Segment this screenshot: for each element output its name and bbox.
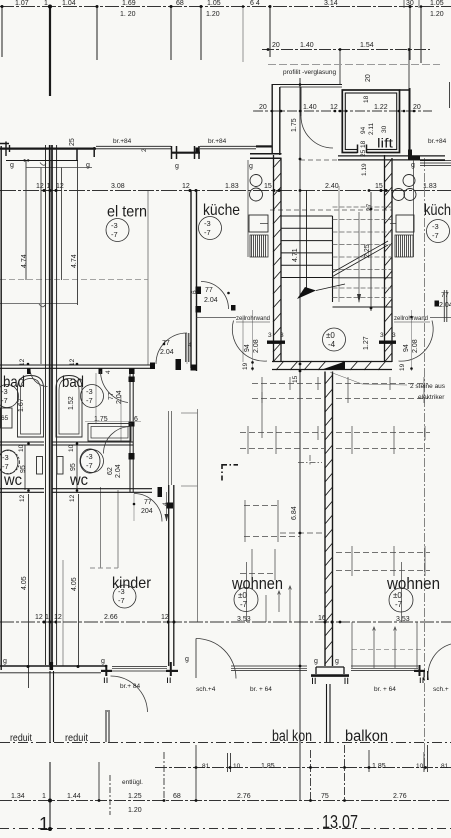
svg-text:balkon: balkon: [345, 728, 388, 745]
svg-text:1.85: 1.85: [261, 763, 275, 770]
kinder closet vertical x118: [117, 490, 119, 568]
kueche fixtures boundary right unit: [413, 160, 415, 257]
dot bottom of x50: [48, 827, 52, 831]
party wall double leaf: [45, 145, 47, 665]
svg-text:2.08: 2.08: [253, 339, 260, 353]
kitchen counter square left: [249, 215, 268, 232]
balcony vertical x369: [368, 750, 370, 772]
level circle wc right: [81, 450, 104, 473]
dashed dim row wohnen right: [352, 649, 424, 651]
lift door gap: [358, 144, 367, 154]
svg-text:g: g: [249, 163, 253, 170]
stair down arrow line: [306, 190, 308, 290]
dots bad top wall: [27, 363, 30, 366]
kinder dim vertical x30: [28, 494, 30, 688]
eltern closet vertical x41: [40, 168, 42, 365]
svg-text:1.05: 1.05: [430, 0, 444, 7]
svg-text:g: g: [86, 162, 90, 169]
bathtub right unit: [56, 376, 82, 438]
svg-text:2.04: 2.04: [116, 390, 123, 404]
svg-text:1.04: 1.04: [62, 0, 76, 7]
bad-wc divider right unit: [53, 442, 134, 445]
kueche door arc 77/2.04: [201, 282, 229, 310]
svg-text:12: 12: [69, 494, 76, 502]
balcony divider reduit x107: [105, 711, 110, 742]
balcony vertical x230 double: [227, 753, 229, 772]
svg-text:reduit: reduit: [65, 733, 88, 744]
svg-text:1.83: 1.83: [423, 183, 437, 190]
level circle kueche right: [427, 220, 450, 243]
dots second row: [267, 48, 270, 51]
door leaf vertical with arrow: [166, 492, 168, 521]
extension line x50 party wall: [49, 6, 51, 96]
svg-text:1.44: 1.44: [67, 793, 81, 800]
svg-text:81: 81: [202, 763, 210, 770]
wc cistern left: [37, 457, 43, 475]
corner block dark: [408, 150, 412, 161]
balcony support top bar: [316, 666, 344, 668]
wohnen left wall: [169, 485, 174, 666]
dots top dim chain: [1, 5, 4, 8]
svg-text:77: 77: [144, 499, 152, 506]
svg-text:2: 2: [141, 148, 148, 152]
svg-text:-7: -7: [1, 396, 8, 405]
svg-text:4: 4: [105, 370, 112, 374]
svg-text:1.67: 1.67: [18, 398, 25, 412]
wohnen dim extension x423: [424, 158, 426, 770]
c hook mark: [40, 163, 46, 166]
dots lift row: [271, 110, 274, 113]
window jamb x94: [93, 147, 95, 157]
svg-text:g: g: [175, 163, 179, 170]
corridor top door jamb black: [176, 359, 182, 370]
wc bottom wall right unit: [53, 489, 153, 493]
level circle bad left: [0, 385, 19, 408]
wc interior door arc: [104, 427, 131, 454]
svg-text:1.40: 1.40: [303, 104, 317, 111]
svg-text:g: g: [335, 658, 339, 665]
svg-text:2.66: 2.66: [104, 614, 118, 621]
svg-text:1.40: 1.40: [300, 42, 314, 49]
svg-text:12: 12: [330, 104, 338, 111]
svg-text:zellrohrwand: zellrohrwand: [394, 316, 428, 322]
svg-text:20: 20: [272, 42, 280, 49]
corner mark in wohnen dash-dot: [221, 464, 223, 482]
black jamb ticks zell walls: [231, 305, 236, 311]
svg-text:2.04: 2.04: [160, 349, 174, 356]
svg-text:-3: -3: [86, 452, 93, 461]
stair section cut diagonals: [333, 241, 389, 277]
kinder closet vertical x100: [100, 487, 102, 568]
svg-text:94: 94: [360, 126, 367, 134]
svg-text:12: 12: [19, 494, 26, 502]
svg-text:-7: -7: [111, 230, 118, 239]
kitchen sink circles right kueche: [403, 175, 415, 187]
balcony verticals x420 x426: [423, 752, 425, 772]
lower row vertical x50: [49, 762, 51, 830]
svg-text:zellrohrwand: zellrohrwand: [236, 316, 270, 322]
level circle wc left: [0, 451, 20, 474]
ladder mid y432-448 left: [240, 433, 324, 449]
svg-text:20: 20: [413, 104, 421, 111]
hatch left stair wall: [273, 159, 281, 362]
svg-text:6 4: 6 4: [250, 0, 260, 7]
svg-text:g: g: [185, 656, 189, 663]
extension line x243: [242, 6, 244, 62]
extension line x97: [96, 6, 98, 60]
svg-text:-3: -3: [86, 387, 93, 396]
svg-text:16: 16: [318, 615, 326, 622]
svg-text:1.83: 1.83: [225, 183, 239, 190]
svg-text:br.+84: br.+84: [113, 138, 132, 145]
window sills right of corner: [420, 161, 451, 166]
svg-text:4.74: 4.74: [71, 254, 78, 268]
dots corridor doors: [163, 343, 166, 346]
dim vertical x339 stair: [338, 186, 340, 302]
corridor right partition thin: [169, 411, 172, 485]
dots wc bottom wall: [27, 489, 30, 492]
svg-text:el tern: el tern: [107, 204, 147, 221]
dimension chain top facade: [0, 6, 451, 8]
svg-text:12: 12: [69, 358, 76, 366]
svg-text:13.07: 13.07: [322, 812, 358, 832]
dots on inner face: [23, 159, 25, 161]
svg-text:br. + 64: br. + 64: [374, 686, 396, 693]
svg-text:1.27: 1.27: [363, 336, 370, 350]
svg-text:1.20: 1.20: [430, 11, 444, 18]
svg-text:-7: -7: [118, 596, 125, 605]
svg-text:±0: ±0: [238, 591, 247, 600]
svg-text:1.69: 1.69: [122, 0, 136, 7]
section line x300 vertical full: [299, 78, 301, 800]
svg-text:20: 20: [259, 104, 267, 111]
svg-text:±0: ±0: [393, 591, 402, 600]
bad interior door arc: [101, 371, 129, 403]
svg-text:30: 30: [381, 125, 388, 133]
stairwell right wall: [385, 155, 393, 362]
extension line x410: [409, 6, 411, 60]
svg-text:12: 12: [161, 614, 169, 621]
svg-text:-3: -3: [204, 219, 211, 228]
svg-text:12: 12: [54, 614, 62, 621]
svg-text:3: 3: [380, 332, 384, 339]
svg-text:-3: -3: [432, 222, 439, 231]
lower row vertical x110: [109, 775, 111, 815]
level circle bad right: [81, 385, 104, 408]
svg-text:profilit -verglasung: profilit -verglasung: [283, 69, 336, 76]
svg-text:19: 19: [399, 363, 406, 371]
eltern closet line x148: [147, 191, 149, 365]
svg-text:3.14: 3.14: [324, 0, 338, 7]
svg-text:-7: -7: [204, 228, 211, 237]
svg-text:12: 12: [35, 614, 43, 621]
eltern window dim vertical x26: [25, 161, 27, 280]
svg-text:g: g: [3, 658, 7, 665]
svg-text:2.76: 2.76: [393, 793, 407, 800]
zellrohrwand thin partition left: [197, 317, 237, 319]
svg-text:reduit: reduit: [10, 733, 32, 744]
svg-text:g: g: [314, 658, 318, 665]
bad 1.75 dim line: [85, 421, 141, 423]
dots kueche door: [227, 292, 230, 295]
stairwell dashed row y210: [270, 209, 392, 211]
svg-text:bad: bad: [62, 374, 84, 391]
svg-text:2 steine aus: 2 steine aus: [410, 383, 446, 390]
wohnen wall top jamb black: [167, 503, 174, 509]
svg-text:15: 15: [264, 183, 272, 190]
bottom dashed line y828: [0, 828, 451, 830]
svg-text:-4: -4: [328, 340, 336, 349]
room dimension chain y190.5: [0, 190, 451, 192]
bad right wall / corridor left wall: [130, 368, 133, 492]
svg-text:wc: wc: [3, 472, 22, 489]
eltern window dim vertical x77.5: [77, 161, 79, 305]
svg-text:77: 77: [162, 340, 170, 347]
lift shaft inner: [345, 93, 396, 150]
svg-text:10: 10: [416, 763, 424, 770]
svg-text:95: 95: [20, 465, 27, 473]
elektriker dashed ladder upper left of spine: [252, 384, 324, 399]
svg-text:-7: -7: [2, 462, 9, 471]
pier bracket x171-200: [172, 146, 200, 159]
svg-text:-3: -3: [118, 587, 125, 596]
svg-text:95: 95: [70, 463, 77, 471]
svg-text:2.04: 2.04: [115, 464, 122, 478]
svg-text:sch.+: sch.+: [433, 686, 449, 693]
svg-text:1.25: 1.25: [128, 793, 142, 800]
svg-text:-3: -3: [111, 221, 118, 230]
svg-text:3.08: 3.08: [111, 183, 125, 190]
svg-text:77: 77: [108, 392, 115, 400]
hatch spine wall: [325, 375, 333, 664]
wall anchor tick left 3|3: [267, 341, 285, 344]
bad thin verticals: [96, 373, 121, 441]
svg-text:1.85: 1.85: [372, 763, 386, 770]
kueche fixtures boundary left: [247, 160, 249, 257]
level circle wohnen right: [389, 588, 413, 612]
wc toilet right: [80, 449, 100, 473]
balcony vertical x333: [344, 745, 346, 800]
svg-text:65: 65: [1, 415, 9, 422]
dots kinder dim chain: [43, 621, 46, 624]
svg-text:1.52: 1.52: [68, 396, 75, 410]
svg-text:2.76: 2.76: [237, 793, 251, 800]
section cut triangle on landing wall: [322, 362, 345, 370]
shower left unit: [0, 408, 12, 428]
svg-text:2.04: 2.04: [439, 302, 451, 309]
balcony dim chain y767: [155, 767, 451, 769]
svg-text:4.74: 4.74: [21, 254, 28, 268]
svg-text:br. + 64: br. + 64: [250, 686, 272, 693]
walkway south wall band: [338, 156, 445, 160]
svg-text:94: 94: [403, 344, 410, 352]
balcony vertical x311: [310, 750, 312, 800]
left bad door arc: [30, 369, 48, 387]
north wall end tee at x0: [0, 142, 10, 157]
landing edge lines right flight: [333, 278, 393, 307]
level circle kueche left: [199, 217, 222, 240]
spine wall between wohnen: [325, 372, 333, 667]
wc cistern right: [57, 457, 63, 475]
window wohnen br+64 sills: [231, 666, 307, 671]
balcony edge dashed y742: [0, 742, 451, 744]
extension x196 below kueche: [197, 409, 199, 622]
svg-text:1.34: 1.34: [11, 793, 25, 800]
balcony vertical x193: [195, 745, 197, 800]
glazing line y84: [272, 84, 342, 86]
svg-text:lift: lift: [377, 136, 393, 151]
wohnen balcony door arc left: [196, 639, 236, 679]
left facade wall: [0, 146, 2, 670]
svg-text:3: 3: [268, 332, 272, 339]
dots south wall: [299, 665, 302, 668]
dot connector: [280, 532, 324, 534]
svg-text:25: 25: [69, 138, 76, 146]
stairwell left wall: [274, 155, 282, 362]
svg-text:6: 6: [191, 290, 198, 294]
window edge ticks right: [424, 671, 428, 680]
stair well edge vertical: [332, 216, 334, 302]
svg-text:1: 1: [39, 814, 49, 834]
zellrohrwand thin partition right: [430, 317, 451, 319]
svg-text:1. 20: 1. 20: [120, 11, 136, 18]
svg-text:1: 1: [47, 183, 51, 190]
kinder closet dash y568: [90, 567, 118, 569]
bad top wall y365-368: [0, 365, 153, 368]
light line y64: [268, 64, 440, 66]
east wall of entrance block: [409, 88, 411, 156]
wc bottom wall left unit: [0, 489, 44, 493]
window jamb x77: [76, 148, 78, 161]
balcony divider center x327: [327, 684, 331, 742]
entrance door arc: [301, 116, 333, 148]
svg-text:2.04: 2.04: [204, 297, 218, 304]
svg-text:10: 10: [18, 444, 25, 452]
connector y303: [0, 303, 77, 305]
svg-text:g: g: [10, 162, 14, 169]
kitchen counter square right: [396, 215, 414, 232]
level circle eltern: [106, 219, 129, 242]
bad top wall end cap: [150, 363, 155, 370]
svg-text:sch.+4: sch.+4: [196, 686, 216, 693]
svg-text:bal kon: bal kon: [272, 728, 312, 745]
svg-text:3.53: 3.53: [237, 616, 251, 623]
bathtub left unit: [18, 376, 44, 438]
lift top wall extension to east wall: [400, 89, 411, 91]
svg-text:1: 1: [44, 0, 48, 7]
svg-text:-7: -7: [240, 600, 248, 609]
svg-text:elektriker: elektriker: [418, 394, 445, 401]
wall anchor tick right 3|3: [379, 341, 396, 344]
apartment entry door left arc 94/2.08: [232, 321, 267, 362]
kitchen hatched block left: [250, 235, 268, 257]
wc dim verticals: [24, 445, 26, 490]
kueche left wall: [191, 191, 197, 371]
dim vertical x371 stair: [370, 192, 372, 311]
balcony support wide bar: [311, 674, 349, 677]
lower dashed boxes right: [336, 553, 430, 571]
svg-text:27: 27: [366, 203, 373, 211]
kueche door jamb ticks: [196, 287, 202, 295]
extension line x171: [170, 6, 172, 60]
svg-text:204: 204: [141, 508, 153, 515]
svg-text:-7: -7: [395, 600, 403, 609]
south wall kinder segment: [0, 665, 106, 667]
eltern vertical x61.5: [61, 168, 63, 281]
svg-text:12: 12: [56, 183, 64, 190]
svg-text:1.75: 1.75: [94, 416, 108, 423]
svg-text:küche: küche: [203, 202, 240, 219]
dots bad-wc divider: [27, 442, 30, 445]
svg-text:1.20: 1.20: [128, 807, 142, 814]
dots balcony dim row: [195, 766, 198, 769]
svg-text:3: 3: [280, 332, 284, 339]
level circle wohnen left: [234, 588, 258, 612]
svg-text:62: 62: [107, 467, 114, 475]
dots lower dim row: [48, 799, 52, 803]
svg-text:br.+ 84: br.+ 84: [120, 683, 140, 690]
svg-text:4.05: 4.05: [71, 577, 78, 591]
wardrobe dashed box left mid: [244, 506, 300, 537]
svg-text:15: 15: [375, 183, 383, 190]
svg-text:2.25: 2.25: [364, 244, 371, 258]
svg-text:12: 12: [36, 183, 44, 190]
svg-text:2.40: 2.40: [325, 183, 339, 190]
svg-text:-3: -3: [2, 453, 9, 462]
svg-text:30: 30: [406, 0, 414, 7]
washbasin counter right bad: [88, 424, 131, 442]
svg-text:3: 3: [392, 332, 396, 339]
stairwell dashed row y160: [300, 159, 392, 161]
svg-text:4.05: 4.05: [21, 576, 28, 590]
svg-text:10: 10: [68, 444, 75, 452]
wohnen balcony door arc right edge: [428, 644, 451, 680]
north wall inner face y160.5: [6, 160, 78, 162]
svg-text:3.53: 3.53: [396, 616, 410, 623]
svg-text:-7: -7: [86, 461, 93, 470]
hatch right stair wall: [385, 159, 393, 362]
stair arrow head: [297, 287, 316, 299]
svg-text:19: 19: [242, 362, 249, 370]
reduit door arc: [111, 676, 148, 712]
lower dashed box left: [252, 549, 275, 580]
dots entry doors: [251, 361, 254, 364]
svg-text:g: g: [411, 162, 415, 169]
north wall left outer thick: [0, 148, 96, 150]
level circle kinder: [113, 585, 136, 608]
svg-text:br.+84: br.+84: [428, 138, 447, 145]
svg-text:1.19: 1.19: [361, 163, 368, 176]
ladder mid y432-448 right: [336, 433, 430, 449]
svg-text:94: 94: [244, 344, 251, 352]
c hook lower: [39, 304, 45, 307]
kinder dim vertical x80: [78, 494, 80, 666]
dash-dot center mark: [298, 455, 322, 465]
wohnen window dim verticals: [247, 562, 291, 622]
svg-text:12: 12: [19, 358, 26, 366]
dots room dim chain y190: [43, 189, 46, 192]
stair small arrow right flight: [358, 212, 360, 302]
svg-text:77: 77: [205, 287, 213, 294]
lift shaft outer: [342, 90, 399, 153]
lower dim chain y800: [0, 800, 451, 802]
corridor door jamb black bottom: [158, 487, 163, 497]
extension line x421: [420, 6, 422, 63]
svg-text:1.54: 1.54: [360, 42, 374, 49]
svg-text:2.11: 2.11: [368, 122, 375, 135]
svg-text:81: 81: [441, 763, 449, 770]
corridor door leaf wall pair: [186, 333, 189, 362]
